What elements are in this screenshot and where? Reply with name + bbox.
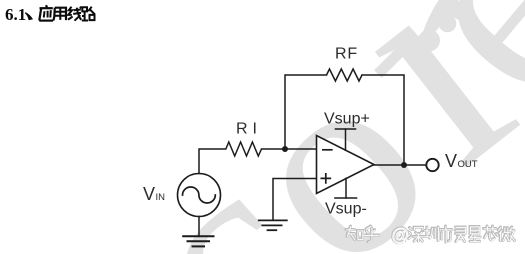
svg-text:Vsup+: Vsup+ — [324, 110, 370, 127]
svg-text:6.1: 6.1 — [5, 5, 26, 24]
svg-text:IN: IN — [156, 192, 166, 203]
svg-text:@: @ — [391, 225, 409, 245]
svg-text:I: I — [253, 121, 257, 138]
svg-text:V: V — [143, 184, 155, 204]
svg-text:Vsup-: Vsup- — [325, 201, 367, 218]
svg-text:R: R — [236, 121, 248, 138]
svg-text:OUT: OUT — [458, 159, 478, 170]
svg-text:V: V — [445, 151, 457, 171]
svg-text:RF: RF — [335, 46, 358, 63]
